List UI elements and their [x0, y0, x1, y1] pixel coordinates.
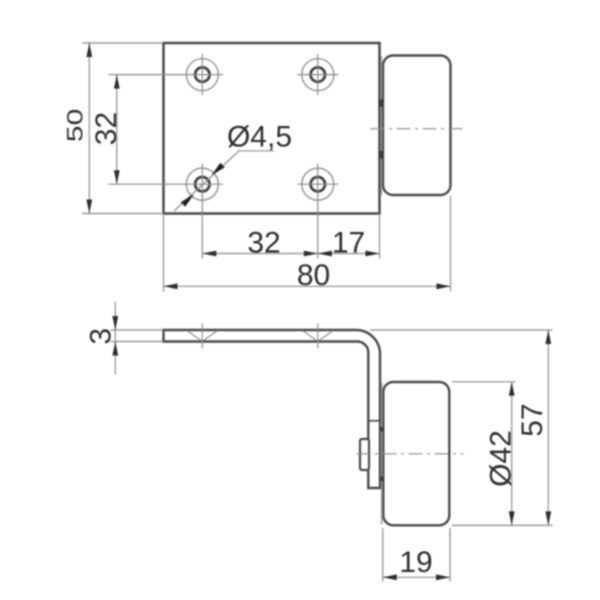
leader diagonal line — [174, 151, 239, 211]
extension line top for dim 42 — [452, 381, 516, 383]
extension line upper for dim 32 vertical — [109, 74, 223, 76]
svg-text:3: 3 — [85, 328, 118, 345]
hole bottom-right — [297, 168, 338, 200]
dimension line 32 vertical — [116, 75, 118, 185]
bent bracket outline — [164, 330, 381, 488]
svg-text:17: 17 — [332, 226, 365, 259]
extension line lower for dim 32 vertical — [109, 183, 223, 185]
svg-text:Ø42: Ø42 — [485, 430, 518, 487]
svg-text:50: 50 — [62, 109, 87, 142]
extension line below plate right edge — [379, 214, 381, 259]
dimension line 3 — [114, 302, 116, 375]
hole bottom-left — [186, 168, 218, 200]
roller (side view) — [383, 382, 449, 525]
countersink mark right hole — [302, 324, 333, 349]
dimension line 42 — [511, 382, 513, 526]
dimension line 57 — [547, 330, 549, 525]
extension line bottom for dim 50 — [82, 213, 164, 215]
centerline (top view) — [371, 128, 465, 130]
extension line top for dim 57 — [370, 329, 553, 331]
flange tick lower — [379, 151, 384, 159]
leader underline — [238, 150, 274, 152]
flange tick upper — [379, 100, 384, 108]
svg-text:19: 19 — [399, 546, 432, 579]
svg-text:80: 80 — [297, 259, 330, 292]
extension line below plate left edge — [163, 214, 165, 292]
flange edge line between plate and roller — [380, 56, 382, 195]
extension lines for dim 19 — [382, 528, 384, 582]
dimension line 17 — [318, 253, 380, 255]
dimension line 19 — [383, 576, 450, 578]
centerline (side view) — [357, 453, 464, 455]
hole top-right — [297, 54, 338, 95]
roller (top view) — [383, 56, 451, 196]
countersink mark left hole — [187, 324, 218, 349]
dimension line 80 — [164, 285, 451, 287]
extension line below hole bottom-left — [201, 164, 203, 259]
extension line bottom shared — [452, 524, 553, 526]
extension line below roller right edge — [450, 196, 452, 292]
leader arrow lower — [181, 194, 194, 207]
dimension line 50 — [88, 43, 90, 214]
svg-text:32: 32 — [247, 226, 280, 259]
edge line between leg and roller — [381, 383, 383, 524]
leader arrow upper — [212, 163, 225, 176]
svg-text:Ø4,5: Ø4,5 — [227, 120, 292, 153]
dimension line 32 horizontal — [202, 253, 317, 255]
hole top-left — [186, 54, 218, 95]
extension lines for dim 3 — [111, 329, 164, 331]
bracket joint line — [369, 420, 379, 422]
svg-text:32: 32 — [90, 112, 123, 145]
axle hub — [360, 439, 369, 470]
side tick lower — [379, 477, 384, 482]
side tick upper — [379, 427, 384, 432]
svg-text:57: 57 — [516, 403, 549, 436]
plate outline — [164, 43, 380, 214]
extension line below hole bottom-right — [317, 164, 319, 259]
extension line top for dim 50 — [82, 42, 164, 44]
